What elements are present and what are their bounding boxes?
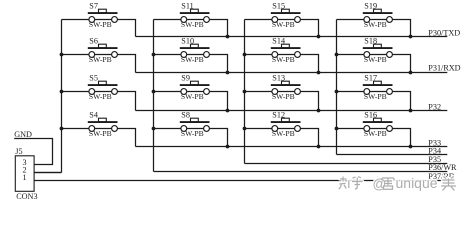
wire: GND to J5 pin 3 <box>14 139 52 165</box>
svg-text:S11: S11 <box>181 1 193 10</box>
svg-text:P30/TXD: P30/TXD <box>428 29 460 38</box>
junction: column 4 rail / row 3 stub <box>335 90 339 94</box>
switch S14 (SW-PB push button) <box>245 36 301 64</box>
svg-text:P36/WR: P36/WR <box>428 163 457 172</box>
svg-text:SW-PB: SW-PB <box>181 92 204 101</box>
wire: column 1 rail to J5 pin 2 <box>34 172 61 174</box>
junction: column 1 rail / row 2 stub <box>60 53 64 57</box>
svg-text:SW-PB: SW-PB <box>272 129 295 138</box>
wire: S11 right pin to row 1 line <box>209 20 227 37</box>
junction: row 4 line / S16 drop <box>409 145 413 149</box>
svg-text:P32: P32 <box>428 102 441 111</box>
switch S10 (SW-PB push button) <box>154 36 210 64</box>
svg-text:S13: S13 <box>272 73 285 82</box>
switch S4 (SW-PB push button) <box>62 110 118 138</box>
svg-text:SW-PB: SW-PB <box>364 55 387 64</box>
wire: S18 right pin to row 2 line <box>392 55 410 73</box>
wire: S9 right pin to row 3 line <box>209 92 227 111</box>
junction: row 4 line / S8 drop <box>226 145 230 149</box>
svg-text:1: 1 <box>23 173 27 182</box>
wire: S15 right pin to row 1 line <box>300 20 318 37</box>
switch S5 (SW-PB push button) <box>62 73 118 101</box>
svg-text:SW-PB: SW-PB <box>89 20 112 29</box>
junction: column 2 rail / row 2 stub <box>152 53 156 57</box>
wire: column 4 rail <box>336 20 338 155</box>
switch S6 (SW-PB push button) <box>62 36 118 64</box>
wire: S7 right pin to row 1 line <box>117 20 135 37</box>
svg-text:S7: S7 <box>89 1 98 10</box>
junction: column 4 rail / row 2 stub <box>335 53 339 57</box>
wire: S8 right pin to row 4 line <box>209 129 227 147</box>
wire: S14 right pin to row 2 line <box>300 55 318 73</box>
junction: row 1 line / S11 drop <box>226 35 230 39</box>
svg-text:S10: S10 <box>181 36 194 45</box>
switch S13 (SW-PB push button) <box>245 73 301 101</box>
wire: J5 pin 1 to net P37/RD <box>34 180 447 182</box>
wire: row 1 line to P30/TXD <box>136 36 448 38</box>
junction: row 4 line / S12 drop <box>317 145 321 149</box>
switch S9 (SW-PB push button) <box>154 73 210 101</box>
svg-text:SW-PB: SW-PB <box>89 55 112 64</box>
junction: row 2 line / S10 drop <box>226 71 230 75</box>
svg-text:SW-PB: SW-PB <box>364 92 387 101</box>
svg-text:@: @ <box>373 176 387 191</box>
switch S12 (SW-PB push button) <box>245 110 301 138</box>
junction: row 1 line / S15 drop <box>317 35 321 39</box>
wire: S4 right pin to row 4 line <box>117 129 135 147</box>
svg-text:unique: unique <box>396 175 438 191</box>
svg-text:SW-PB: SW-PB <box>364 129 387 138</box>
svg-text:SW-PB: SW-PB <box>272 20 295 29</box>
wire: net P35 from column 3 rail <box>245 163 448 165</box>
wire: J5 pin 2 stub <box>34 172 61 174</box>
wire: column 2 rail <box>153 20 155 172</box>
svg-text:SW-PB: SW-PB <box>181 129 204 138</box>
svg-text:J5: J5 <box>15 147 22 156</box>
svg-text:S19: S19 <box>364 1 377 10</box>
wire: row 2 line to P31/RXD <box>136 72 448 74</box>
wire: net P36/WR from column 2 rail <box>154 171 448 173</box>
watermark <box>339 175 456 191</box>
junction: column 1 rail / row 4 stub <box>60 127 64 131</box>
svg-text:S5: S5 <box>89 73 98 82</box>
svg-text:S8: S8 <box>181 110 190 119</box>
wire: S17 right pin to row 3 line <box>392 92 410 111</box>
wire: column 1 rail <box>61 20 63 173</box>
svg-text:S17: S17 <box>364 73 377 82</box>
switch S11 (SW-PB push button) <box>154 1 210 29</box>
junction: row 2 line / S18 drop <box>409 71 413 75</box>
svg-text:CON3: CON3 <box>16 192 37 201</box>
wire: net P34 from column 4 rail <box>337 154 448 156</box>
svg-text:S12: S12 <box>272 110 285 119</box>
svg-text:S18: S18 <box>364 36 377 45</box>
junction: column 4 rail / row 4 stub <box>335 127 339 131</box>
junction: column 2 rail / row 4 stub <box>152 127 156 131</box>
junction: row 3 line / S13 drop <box>317 109 321 113</box>
svg-text:SW-PB: SW-PB <box>181 55 204 64</box>
switch S18 (SW-PB push button) <box>337 36 393 64</box>
junction: column 3 rail / row 4 stub <box>243 127 247 131</box>
junction: column 3 rail / row 3 stub <box>243 90 247 94</box>
junction: column 3 rail / row 2 stub <box>243 53 247 57</box>
switch S19 (SW-PB push button) <box>337 1 393 29</box>
wire: S13 right pin to row 3 line <box>300 92 318 111</box>
svg-text:S14: S14 <box>272 36 285 45</box>
svg-text:S16: S16 <box>364 110 377 119</box>
svg-text:P31/RXD: P31/RXD <box>428 64 460 73</box>
svg-text:SW-PB: SW-PB <box>181 20 204 29</box>
junction: row 1 line / S19 drop <box>409 35 413 39</box>
wire: S10 right pin to row 2 line <box>209 55 227 73</box>
svg-text:SW-PB: SW-PB <box>272 55 295 64</box>
wire: S5 right pin to row 3 line <box>117 92 135 111</box>
wire: S6 right pin to row 2 line <box>117 55 135 73</box>
wire: row 3 line to P32 <box>136 110 448 112</box>
svg-text:SW-PB: SW-PB <box>364 20 387 29</box>
junction: row 3 line / S17 drop <box>409 109 413 113</box>
svg-text:GND: GND <box>14 130 32 139</box>
wire: row 4 line to P33 <box>136 146 448 148</box>
junction: row 3 line / S9 drop <box>226 109 230 113</box>
svg-text:S9: S9 <box>181 73 190 82</box>
connector J5 (CON3) <box>15 156 34 192</box>
svg-text:S6: S6 <box>89 36 98 45</box>
wire: S12 right pin to row 4 line <box>300 129 318 147</box>
switch S7 (SW-PB push button) <box>62 1 118 29</box>
junction: column 2 rail / row 3 stub <box>152 90 156 94</box>
wire: S16 right pin to row 4 line <box>392 129 410 147</box>
switch S8 (SW-PB push button) <box>154 110 210 138</box>
junction: column 1 rail / row 3 stub <box>60 90 64 94</box>
wire: column 3 rail <box>244 20 246 164</box>
svg-text:SW-PB: SW-PB <box>272 92 295 101</box>
svg-text:S15: S15 <box>272 1 285 10</box>
switch S17 (SW-PB push button) <box>337 73 393 101</box>
wire: S19 right pin to row 1 line <box>392 20 410 37</box>
switch S16 (SW-PB push button) <box>337 110 393 138</box>
svg-text:SW-PB: SW-PB <box>89 129 112 138</box>
junction: row 2 line / S14 drop <box>317 71 321 75</box>
svg-text:S4: S4 <box>89 110 98 119</box>
switch S15 (SW-PB push button) <box>245 1 301 29</box>
svg-text:SW-PB: SW-PB <box>89 92 112 101</box>
